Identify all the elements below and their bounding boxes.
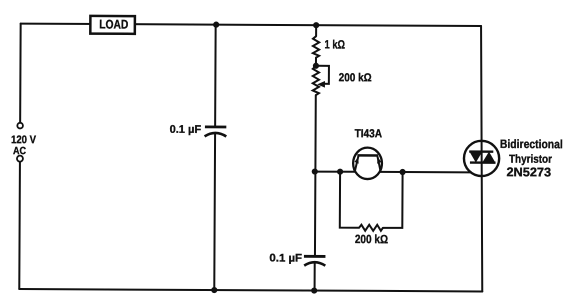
- svg-text:0.1 µF: 0.1 µF: [269, 252, 302, 264]
- svg-text:Thyristor: Thyristor: [509, 154, 553, 166]
- svg-text:1 kΩ: 1 kΩ: [325, 37, 346, 51]
- svg-text:200 kΩ: 200 kΩ: [339, 72, 372, 84]
- svg-text:2N5273: 2N5273: [506, 165, 551, 179]
- svg-text:TI43A: TI43A: [355, 128, 383, 140]
- svg-text:200 kΩ: 200 kΩ: [355, 232, 389, 246]
- svg-text:Bidirectional: Bidirectional: [500, 137, 563, 151]
- svg-text:AC: AC: [13, 145, 26, 157]
- svg-text:LOAD: LOAD: [99, 17, 128, 31]
- svg-text:0.1 µF: 0.1 µF: [170, 124, 202, 136]
